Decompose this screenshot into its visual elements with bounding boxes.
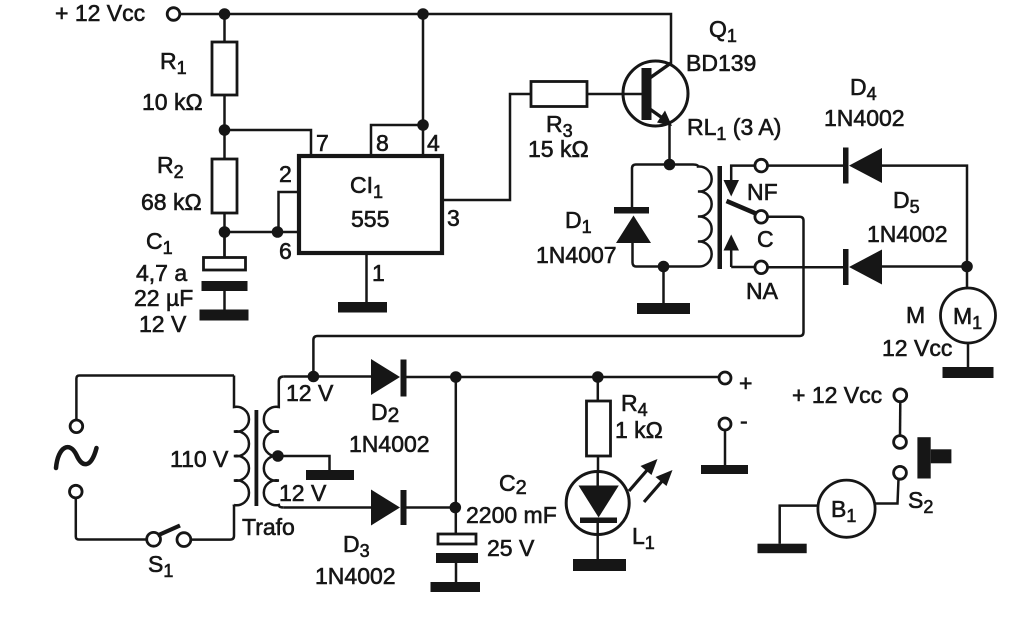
node rail-R1 (219, 8, 231, 20)
switch S2 contact top (894, 436, 907, 449)
wire pin8 (371, 125, 423, 155)
svg-text:1N4002: 1N4002 (315, 563, 396, 589)
switch S1 (147, 526, 191, 547)
svg-text:BD139: BD139 (686, 50, 756, 76)
diode D5 (768, 249, 968, 285)
switch S2 button (917, 437, 951, 478)
wire minus gnd (724, 430, 727, 465)
node pin2-pin6 (272, 226, 284, 238)
wire secondary top to D2 (284, 375, 371, 378)
wire pin2 (279, 192, 299, 232)
svg-text:2: 2 (279, 161, 292, 187)
wire AC bottom to S1 (76, 498, 147, 540)
svg-text:+ 12 Vcc: + 12 Vcc (792, 382, 882, 408)
capacitor C2 (436, 534, 478, 582)
node relay-D1-gnd (658, 261, 670, 273)
AC sine symbol (56, 447, 97, 468)
svg-text:NF: NF (747, 179, 778, 205)
node D2-C2 (450, 371, 462, 383)
node D4-D5-M1 (961, 261, 973, 273)
diode D4 (768, 148, 968, 289)
svg-text:555: 555 (351, 206, 389, 232)
wire center tap to gnd (279, 456, 330, 470)
svg-text:22 µF: 22 µF (134, 285, 193, 311)
node R1-R2-pin7 (219, 124, 231, 136)
transformer secondary coil (264, 377, 284, 508)
wire pin4 (422, 14, 425, 155)
node pin8-pin4 (417, 119, 429, 131)
terminal plus (719, 372, 731, 384)
transistor Q1 (623, 61, 688, 126)
svg-text:1N4007: 1N4007 (536, 242, 617, 268)
wire pin1 (365, 255, 368, 302)
wire emitter down (668, 123, 671, 164)
svg-text:110 V: 110 V (170, 446, 229, 472)
svg-text:6: 6 (279, 238, 292, 264)
svg-text:1: 1 (372, 260, 385, 286)
svg-text:C: C (757, 226, 774, 252)
svg-text:12 V: 12 V (279, 480, 327, 506)
node D3-C2 (450, 502, 462, 514)
relay lever (727, 201, 758, 214)
svg-text:3: 3 (447, 205, 460, 231)
transformer core (255, 410, 259, 506)
svg-text:Trafo: Trafo (242, 514, 295, 540)
AC source top terminal (70, 420, 83, 433)
svg-text:D2: D2 (371, 399, 399, 427)
wire pin7 (225, 130, 312, 155)
relay contact NA arrow (724, 235, 755, 268)
svg-text:68 kΩ: 68 kΩ (141, 189, 202, 215)
svg-text:2200 mF: 2200 mF (466, 502, 557, 528)
wire secondary bottom to D3 (284, 506, 371, 509)
switch S2 contact bottom (894, 466, 907, 479)
AC source bottom terminal (70, 485, 83, 498)
svg-text:M: M (906, 302, 925, 328)
svg-text:NA: NA (746, 278, 779, 304)
diode D3 (371, 490, 455, 526)
svg-text:15 kΩ: 15 kΩ (528, 136, 589, 162)
ground C1 (200, 310, 249, 321)
relay contact C (755, 211, 768, 224)
transformer primary circuit top wire (76, 376, 234, 421)
svg-text:1N4002: 1N4002 (349, 431, 430, 457)
relay contact NA (755, 261, 768, 274)
wire to S2 (899, 402, 902, 436)
ground L1 (573, 559, 626, 571)
node rail-pin4 (417, 8, 429, 20)
svg-text:10 kΩ: 10 kΩ (142, 89, 203, 115)
svg-text:8: 8 (376, 130, 389, 156)
ground minus (701, 465, 748, 474)
svg-text:4,7 a: 4,7 a (136, 260, 187, 286)
transformer primary coil (234, 376, 249, 506)
svg-text:+: + (739, 370, 752, 396)
svg-text:1N4002: 1N4002 (824, 105, 905, 131)
node R2-C1-pin6 (219, 226, 231, 238)
svg-text:+ 12 Vcc: + 12 Vcc (55, 0, 145, 26)
wire pin6 (225, 231, 299, 234)
wire S2 to B1 (875, 479, 899, 504)
svg-text:7: 7 (316, 130, 329, 156)
relay core (718, 166, 723, 269)
node center tap (272, 450, 284, 462)
svg-text:RL1 (3 A): RL1 (3 A) (687, 114, 781, 144)
svg-text:1N4002: 1N4002 (867, 221, 948, 247)
ground center tap (306, 470, 354, 480)
wire D1 top branch (632, 165, 670, 209)
wire C2 branch (455, 377, 458, 534)
wire S1 to trafo (191, 505, 234, 540)
ground C2 (431, 582, 481, 592)
svg-text:12 Vcc: 12 Vcc (882, 335, 952, 361)
relay RL1 coil (664, 165, 712, 267)
ground B1 (758, 544, 807, 554)
ground relay (637, 303, 690, 314)
svg-text:-: - (740, 408, 748, 434)
LED arrows (629, 459, 673, 502)
LED L1 (566, 472, 629, 560)
terminal +12Vcc top (167, 8, 180, 21)
svg-text:25 V: 25 V (487, 535, 535, 561)
op-amp U1 555 box (299, 156, 442, 253)
svg-text:12 V: 12 V (286, 380, 334, 406)
wire top rail (180, 14, 671, 64)
ground M1 (943, 367, 994, 378)
wire relay gnd stem (662, 267, 665, 304)
terminal minus (719, 418, 731, 430)
svg-text:1 kΩ: 1 kΩ (615, 417, 663, 443)
node C-wire tap (308, 371, 320, 383)
buzzer B1 (818, 480, 875, 537)
diode D1 (614, 207, 664, 267)
terminal +12Vcc bottom (894, 389, 907, 402)
node rail-R4 (592, 371, 604, 383)
ground 555 (338, 302, 387, 313)
wire relay C to supply (313, 217, 803, 377)
capacitor C1 (202, 232, 248, 310)
wire pin3 (443, 94, 531, 200)
node emitter-relay-D1 (664, 159, 676, 171)
resistor R4 (587, 377, 611, 472)
svg-text:4: 4 (427, 130, 440, 156)
diode D2 (371, 359, 719, 397)
svg-text:12 V: 12 V (139, 311, 187, 337)
wire B1 to gnd (780, 506, 818, 544)
resistor R3 (531, 82, 643, 107)
resistor R1 (212, 14, 237, 159)
resistor R2 (212, 159, 237, 257)
relay contact NF (724, 159, 768, 196)
motor M1 (941, 288, 996, 367)
